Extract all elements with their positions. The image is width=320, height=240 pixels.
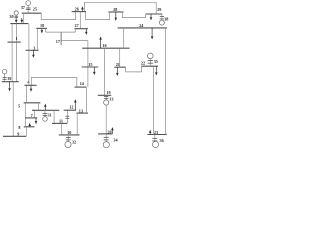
bus 11	[52, 122, 67, 124]
load arrow bus20 up	[111, 127, 114, 134]
load arrow bus27	[85, 29, 88, 35]
transformer 19-20 with G33	[104, 95, 109, 134]
svg-text:5: 5	[18, 104, 20, 109]
bus 21	[114, 66, 125, 68]
bus 16	[82, 47, 129, 49]
load arrow bus23 up	[149, 130, 152, 135]
generator G36	[152, 135, 158, 148]
bus 14	[75, 86, 87, 88]
generator G38	[159, 14, 164, 25]
bus 29	[146, 13, 163, 15]
svg-text:12: 12	[69, 105, 73, 110]
svg-text:18: 18	[40, 23, 44, 28]
bus 10	[59, 134, 80, 136]
svg-text:23: 23	[154, 130, 158, 135]
wire 22-23	[152, 66, 154, 134]
svg-text:35: 35	[154, 59, 158, 64]
svg-text:28: 28	[113, 7, 117, 12]
load arrow bus8 up	[28, 123, 31, 127]
wire 16-17	[61, 40, 88, 42]
bus 6	[32, 109, 59, 111]
wire 14-15 15-16 16-17 riser	[87, 41, 89, 88]
svg-text:20: 20	[107, 130, 111, 135]
wire 3-18	[36, 28, 38, 50]
svg-text:30: 30	[9, 14, 13, 19]
bus 15	[82, 66, 98, 68]
wire 5-8	[24, 103, 26, 127]
bus 7	[25, 117, 37, 119]
wire 1-2 b	[15, 24, 17, 42]
svg-text:11: 11	[59, 119, 63, 124]
svg-text:19: 19	[106, 90, 110, 95]
svg-text:1: 1	[16, 36, 18, 41]
load arrow bus18	[41, 28, 44, 33]
load arrow bus24	[151, 28, 154, 40]
bus 4	[24, 84, 36, 86]
wire 18 stub	[45, 28, 47, 32]
wire 8-9	[25, 127, 27, 137]
bus 8	[24, 126, 35, 128]
load arrow bus16 up	[99, 37, 102, 49]
wire 4-14	[31, 77, 77, 87]
bus 27	[74, 28, 88, 30]
wire 1-2 a	[11, 24, 13, 42]
wire 17-27 stub	[74, 29, 76, 32]
load arrow bus39	[8, 82, 11, 92]
load arrow bus22	[155, 66, 158, 75]
svg-text:10: 10	[67, 130, 71, 135]
bus 3	[26, 49, 39, 51]
svg-text:25: 25	[33, 6, 37, 11]
bus 28	[108, 11, 123, 13]
load arrow bus4	[30, 85, 33, 91]
svg-text:39: 39	[7, 76, 11, 81]
bus 24	[118, 27, 167, 29]
wire 26-28	[86, 12, 110, 20]
svg-text:22: 22	[141, 61, 145, 66]
wire 28-29	[122, 12, 145, 18]
wire 6-7	[33, 110, 35, 118]
wire 10-13	[76, 113, 78, 135]
svg-text:31: 31	[48, 113, 52, 118]
svg-text:32: 32	[72, 139, 76, 144]
svg-text:9: 9	[17, 132, 19, 137]
bus 1	[8, 41, 21, 43]
load arrow bus29	[150, 14, 153, 20]
svg-text:36: 36	[160, 138, 164, 143]
wire 3-4	[28, 50, 30, 85]
bus 25	[22, 12, 42, 14]
generator G34	[103, 134, 109, 148]
wire 2-25	[22, 13, 24, 23]
load arrow bus25	[21, 18, 24, 23]
svg-text:16: 16	[102, 43, 106, 48]
bus 9	[3, 135, 26, 137]
svg-text:33: 33	[109, 97, 113, 102]
wire 16-21	[119, 48, 121, 67]
bus 39	[2, 81, 19, 83]
wire 17-27 and 17-18	[46, 31, 76, 33]
wire 1-39 a	[11, 42, 13, 82]
wire 9-39	[12, 82, 14, 137]
load arrow bus26 up	[81, 6, 84, 11]
wire 16-19	[104, 48, 106, 95]
bus 26	[72, 11, 86, 13]
wire 16-24	[123, 28, 125, 48]
bus 22	[142, 65, 159, 67]
bus 17	[60, 32, 62, 45]
generator G35	[148, 53, 154, 66]
svg-text:38: 38	[164, 16, 168, 21]
wire 26-29	[84, 2, 156, 14]
wire 10-11	[61, 123, 63, 134]
generator G31	[43, 110, 48, 121]
wire 21-22	[126, 66, 142, 72]
load arrow bus12 up	[74, 99, 77, 110]
generator G32	[65, 135, 71, 148]
load arrow bus28	[115, 12, 118, 21]
generator G30	[14, 11, 18, 23]
wire 6-11	[53, 110, 55, 123]
bus 18	[36, 27, 47, 29]
wire 2-3	[28, 24, 30, 51]
generator G37	[26, 1, 31, 14]
bus 19	[98, 94, 111, 96]
wire 5-6	[38, 103, 40, 111]
svg-text:15: 15	[88, 62, 92, 67]
wire 23-24	[165, 28, 167, 135]
svg-text:7: 7	[31, 113, 33, 118]
svg-text:26: 26	[75, 6, 79, 11]
svg-text:8: 8	[18, 125, 20, 130]
bus 5	[24, 102, 41, 104]
svg-text:21: 21	[116, 62, 120, 67]
bus 20	[98, 133, 112, 135]
wire 4-5	[26, 85, 28, 103]
load arrow bus15	[93, 67, 96, 75]
load arrow bus7	[35, 118, 38, 124]
svg-text:27: 27	[75, 23, 79, 28]
wire 13-14	[85, 87, 87, 113]
bus 23	[147, 134, 166, 136]
wire 26-27	[79, 12, 81, 29]
load arrow bus3	[32, 50, 35, 58]
load arrow bus21	[116, 67, 119, 76]
bus 13	[76, 112, 88, 114]
svg-text:37: 37	[21, 5, 25, 10]
wire 11-12 transformer	[65, 110, 69, 123]
svg-text:29: 29	[157, 7, 161, 12]
wire 25-26	[41, 12, 75, 20]
generator G39	[2, 69, 7, 81]
load arrow bus6 up	[44, 104, 47, 111]
svg-text:3: 3	[33, 46, 35, 51]
wire 1-39 b	[15, 42, 17, 82]
bus 12	[64, 109, 76, 111]
svg-text:17: 17	[56, 39, 60, 44]
svg-text:13: 13	[79, 108, 83, 113]
bus 2	[10, 23, 28, 25]
